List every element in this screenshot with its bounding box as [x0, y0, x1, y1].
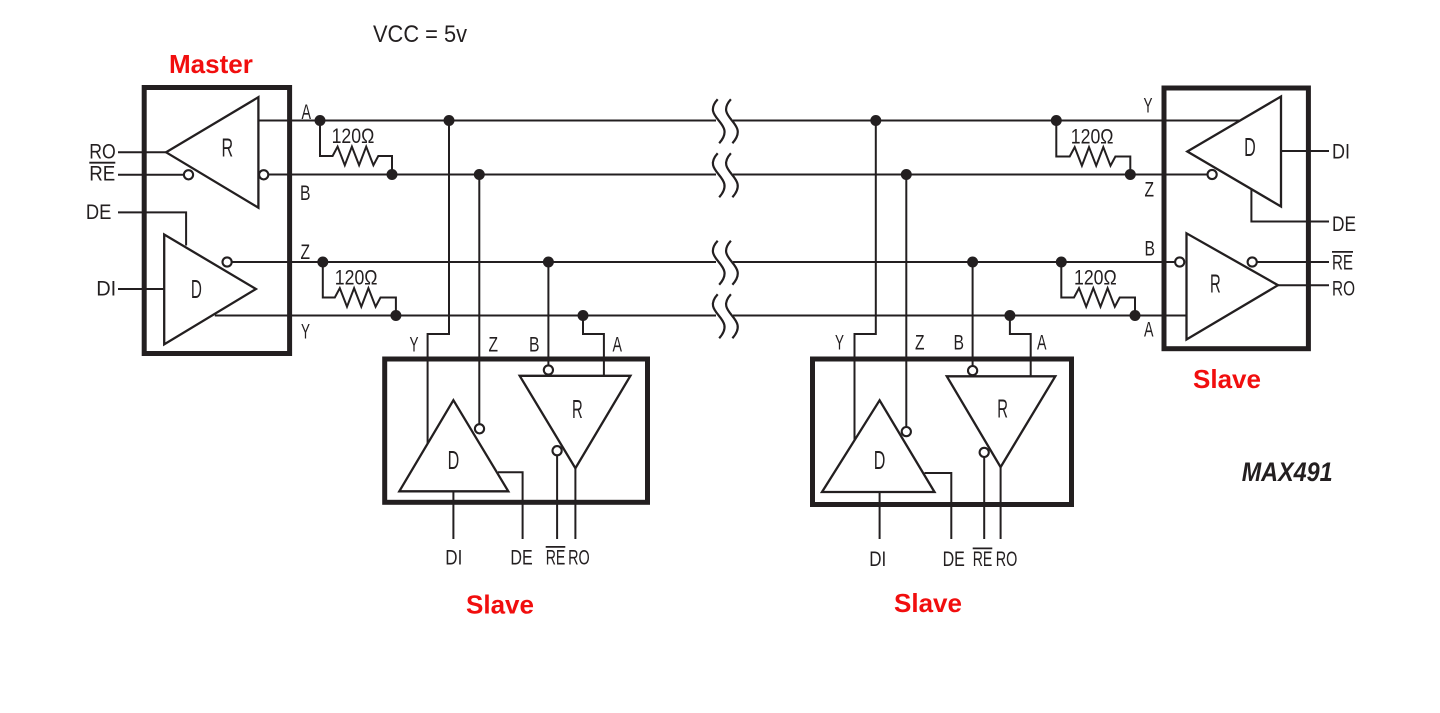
svg-text:Y: Y	[835, 332, 844, 355]
inversion bubble master RE	[184, 170, 193, 179]
svg-text:Z: Z	[301, 241, 311, 264]
op-amp U4 receiver R triangle	[1187, 233, 1279, 339]
junction dot net Z / slave2 B	[967, 257, 978, 268]
break symbol on net A	[713, 99, 738, 143]
wire slave2 pin RO	[1000, 467, 1002, 539]
inversion bubble right slave RE	[1248, 257, 1257, 266]
svg-text:RE: RE	[546, 547, 566, 570]
svg-text:B: B	[529, 334, 540, 357]
wire net B bus right segment	[733, 174, 1162, 176]
svg-text:D: D	[448, 447, 460, 475]
inversion bubble right slave Z input	[1208, 170, 1217, 179]
wire slave1 pin B drop from net Z	[547, 262, 549, 367]
overline for RE right slave	[1332, 251, 1353, 253]
overline for RE slave2	[973, 547, 993, 549]
wire master pin DI	[118, 288, 165, 290]
wire right slave pin DI	[1281, 150, 1329, 152]
overline for RE master	[89, 162, 115, 164]
junction dot net Y / R4	[1130, 310, 1141, 321]
break symbol on net Y	[713, 294, 738, 338]
inversion bubble master Z output	[223, 257, 232, 266]
junction dot net A / slave1 Y	[444, 115, 455, 126]
svg-text:MAX491: MAX491	[1242, 457, 1333, 487]
wire right slave pin Z input	[1162, 174, 1208, 176]
wire slave2 pin DI	[879, 492, 881, 539]
wire net A bus right segment	[733, 120, 1162, 122]
op-amp U4 driver D triangle	[1187, 97, 1281, 207]
svg-text:RE: RE	[1332, 252, 1353, 275]
svg-text:DE: DE	[510, 547, 532, 570]
svg-text:Y: Y	[1144, 95, 1153, 118]
op-amp U2 driver D triangle	[399, 400, 508, 491]
wire slave2 pin Z drop from net B	[905, 175, 907, 430]
svg-text:DI: DI	[96, 277, 116, 300]
svg-text:Z: Z	[489, 334, 499, 357]
wire right slave pin RE	[1257, 261, 1330, 263]
wire right slave pin A input	[1162, 315, 1187, 317]
junction dot net Y / R2	[390, 310, 401, 321]
wire slave1 pin A drop from net Y	[583, 316, 604, 376]
junction dot net B / slave2 Z	[901, 169, 912, 180]
svg-text:Slave: Slave	[1193, 364, 1261, 394]
svg-text:Master: Master	[169, 49, 253, 79]
svg-text:D: D	[874, 447, 886, 475]
IC box slave2 MAX491 U3	[813, 359, 1072, 505]
wire slave1 pin RE	[556, 453, 558, 539]
wire net Z bus right segment	[733, 261, 1162, 263]
op-amp U1 driver D triangle	[164, 235, 256, 345]
svg-text:120Ω: 120Ω	[332, 125, 375, 148]
wire master pin RE	[118, 174, 184, 176]
break symbol on net Z	[713, 241, 738, 285]
wire slave1 pin RO	[574, 468, 576, 539]
junction dot net Z / slave1 B	[543, 257, 554, 268]
svg-text:R: R	[222, 135, 234, 163]
svg-text:RO: RO	[996, 548, 1018, 571]
inversion bubble master B input	[259, 170, 268, 179]
inversion bubble slave1 B input	[544, 365, 553, 374]
svg-text:A: A	[302, 101, 312, 124]
wire net A bus left segment	[258, 120, 716, 122]
inversion bubble slave2 B input	[968, 366, 977, 375]
svg-text:DE: DE	[1332, 213, 1356, 236]
junction dot net A / R1	[315, 115, 326, 126]
resistor R4 120ohm between Z and Y (right)	[1061, 262, 1135, 316]
op-amp U3 driver D triangle	[822, 400, 935, 492]
svg-text:Y: Y	[410, 334, 419, 357]
junction dot net Y / slave1 A	[578, 310, 589, 321]
inversion bubble slave1 Z input	[475, 424, 484, 433]
junction dot net B / R1	[387, 169, 398, 180]
op-amp U2 receiver R triangle	[520, 376, 631, 468]
svg-text:D: D	[191, 276, 202, 304]
wire slave2 pin Y drop from net A	[855, 121, 876, 445]
svg-text:B: B	[300, 182, 311, 205]
svg-text:Y: Y	[301, 321, 310, 344]
svg-text:RE: RE	[89, 163, 115, 186]
op-amp U1 receiver R triangle	[166, 97, 258, 208]
overline for RE slave1	[546, 546, 566, 548]
svg-text:120Ω: 120Ω	[1071, 125, 1114, 148]
svg-text:A: A	[613, 334, 623, 357]
wire slave1 pin DE	[498, 472, 523, 539]
svg-text:R: R	[1210, 270, 1221, 298]
svg-text:R: R	[997, 395, 1008, 423]
svg-text:A: A	[1037, 332, 1047, 355]
junction dot net Z / R2	[317, 257, 328, 268]
svg-text:RO: RO	[568, 547, 590, 570]
junction dot net B / slave1 Z	[474, 169, 485, 180]
wire master pin RO	[118, 151, 166, 153]
svg-text:RE: RE	[973, 548, 993, 571]
svg-text:DI: DI	[445, 547, 462, 570]
svg-text:DE: DE	[943, 548, 965, 571]
svg-text:RO: RO	[89, 140, 116, 163]
wire slave1 pin DI	[452, 491, 454, 539]
junction dot net A / R3	[1051, 115, 1062, 126]
wire slave1 pin Y drop from net A	[428, 121, 449, 445]
junction dot net A / slave2 Y	[870, 115, 881, 126]
svg-text:B: B	[1145, 238, 1156, 261]
svg-text:Slave: Slave	[894, 588, 962, 618]
wire slave2 pin DE	[925, 473, 952, 539]
wire right slave pin DE	[1251, 190, 1329, 222]
inversion bubble slave1 RE	[553, 446, 562, 455]
wire net Y bus left segment	[215, 315, 716, 317]
inversion bubble slave2 Z input	[902, 427, 911, 436]
svg-text:VCC = 5v: VCC = 5v	[373, 21, 467, 48]
wire net Y bus right segment	[733, 315, 1162, 317]
svg-text:R: R	[572, 396, 583, 424]
op-amp U3 receiver R triangle	[947, 376, 1056, 467]
svg-text:Z: Z	[915, 332, 925, 355]
svg-text:DI: DI	[869, 548, 886, 571]
wire slave2 pin B drop from net Z	[972, 262, 974, 368]
break symbol on net B	[713, 153, 738, 197]
svg-text:120Ω: 120Ω	[335, 266, 378, 289]
wire right slave pin B input	[1162, 261, 1176, 263]
resistor R1 120ohm between A and B (left)	[320, 121, 392, 175]
svg-text:120Ω: 120Ω	[1074, 266, 1117, 289]
svg-text:D: D	[1244, 134, 1256, 162]
IC box master MAX491 U1	[144, 88, 289, 354]
svg-text:B: B	[954, 332, 965, 355]
junction dot net B / R3	[1125, 169, 1136, 180]
wire right slave pin Y input	[1162, 120, 1241, 122]
svg-text:Slave: Slave	[466, 590, 534, 620]
resistor R3 120ohm between A and B (right)	[1056, 121, 1130, 175]
wire slave2 pin A drop from net Y	[1010, 316, 1031, 377]
IC box right slave MAX491 U4	[1164, 88, 1308, 349]
wire net B bus left segment	[268, 174, 716, 176]
resistor R2 120ohm between Z and Y (left)	[323, 262, 396, 316]
inversion bubble right slave B input	[1175, 257, 1184, 266]
wire right slave pin RO	[1278, 284, 1329, 286]
wire master pin DE	[118, 212, 186, 245]
svg-text:A: A	[1144, 319, 1154, 342]
IC box slave1 MAX491 U2	[385, 359, 648, 502]
wire slave2 pin RE	[983, 455, 985, 539]
svg-text:DE: DE	[86, 201, 112, 224]
junction dot net Z / R4	[1056, 257, 1067, 268]
svg-text:DI: DI	[1332, 141, 1350, 164]
wire net Z bus left segment	[229, 261, 716, 263]
wire slave1 pin Z drop from net B	[478, 175, 480, 427]
junction dot net Y / slave2 A	[1004, 310, 1015, 321]
inversion bubble slave2 RE	[980, 448, 989, 457]
svg-text:RO: RO	[1332, 278, 1355, 301]
svg-text:Z: Z	[1145, 179, 1155, 202]
